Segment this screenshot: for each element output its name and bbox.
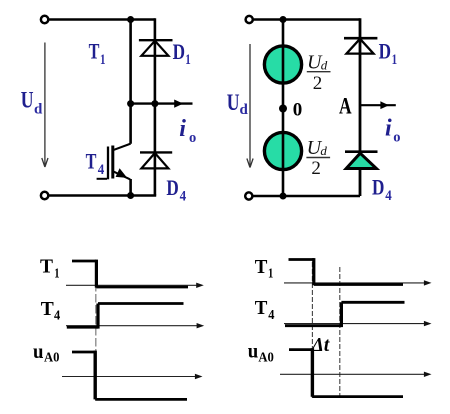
Ud arrowhead (left circuit) (42, 158, 48, 167)
svg-text:o: o (393, 130, 400, 146)
waveform uA0 high (right) (289, 348, 312, 351)
axis uA0 (left diagram) (62, 376, 199, 378)
diode D4 (left) triangle (141, 153, 168, 168)
svg-text:u: u (248, 339, 259, 363)
svg-text:4: 4 (54, 308, 60, 323)
svg-text:1: 1 (268, 267, 273, 282)
IGBT T4 gate bar (107, 147, 109, 180)
terminal upper-left (41, 16, 48, 23)
wire diode branch vertical (right circuit) (359, 18, 362, 196)
svg-text:1: 1 (54, 267, 59, 282)
waveform uA0 low (right) (312, 395, 403, 398)
svg-text:2: 2 (311, 158, 321, 179)
diode D4 (right) cathode bar (345, 150, 378, 153)
node junction bottom (right circuit) (280, 193, 287, 200)
svg-text:T: T (89, 39, 100, 64)
axis T1 arrowhead (196, 283, 204, 288)
terminal lower (right circuit) (245, 192, 252, 199)
waveform T4 low (right) (285, 324, 341, 327)
diode D1 (left) triangle (141, 41, 168, 56)
wire bottom rail (right circuit) (252, 195, 360, 198)
svg-text:2: 2 (313, 73, 323, 94)
svg-text:4: 4 (385, 188, 392, 204)
svg-text:D: D (372, 175, 384, 200)
axis T1 arrowhead (right) (424, 280, 432, 285)
svg-text:i: i (385, 116, 392, 142)
axis T4 arrowhead (197, 323, 205, 328)
svg-text:o: o (189, 130, 196, 146)
axis uA0 arrowhead (195, 374, 203, 379)
svg-text:d: d (321, 58, 328, 73)
diode D4 (right) triangle filled green (346, 153, 376, 168)
svg-text:T: T (255, 256, 268, 278)
svg-text:4: 4 (98, 162, 105, 178)
svg-text:1: 1 (392, 52, 398, 68)
terminal upper (right circuit) (246, 16, 253, 23)
dashed timeline (left diagram) (95, 261, 97, 400)
IGBT T4 collector lead (113, 144, 131, 151)
svg-text:4: 4 (268, 308, 274, 323)
node 0 dot (279, 105, 287, 113)
Ud arrow line (left circuit) (44, 43, 46, 166)
svg-text:D: D (166, 175, 178, 200)
waveform uA0 high (left) (72, 351, 95, 354)
svg-text:u: u (33, 339, 44, 363)
svg-text:D: D (173, 39, 185, 64)
node junction mid-right (151, 100, 158, 107)
axis T4 (right diagram) (284, 323, 428, 325)
waveform T1 fall edge (left) (95, 260, 98, 288)
svg-text:0: 0 (293, 100, 303, 121)
axis T4 (left diagram) (66, 325, 201, 327)
wire top rail (left circuit) (48, 18, 154, 21)
waveform T1 high (right) (289, 258, 315, 261)
svg-text:T: T (41, 298, 55, 320)
dashed timeline t1 (right diagram) (311, 262, 313, 398)
waveform T4 rise edge (right) (340, 302, 343, 327)
svg-text:T: T (255, 297, 268, 319)
svg-text:d: d (320, 143, 327, 158)
diode D1 (right) cathode bar (344, 37, 377, 40)
waveform T1 low (right) (314, 283, 403, 286)
wire bottom rail (left circuit) (48, 194, 156, 197)
node junction bottom (left circuit) (127, 192, 134, 199)
svg-text:d: d (34, 102, 43, 118)
waveform uA0 low (left) (95, 398, 187, 401)
svg-text:T: T (40, 256, 54, 278)
wire emitter to bottom rail (129, 179, 132, 196)
wire diode branch vertical (154, 18, 157, 195)
arrow io (left circuit) (174, 100, 183, 108)
wire output at node A (360, 104, 396, 106)
Ud arrow line (right circuit) (249, 44, 251, 166)
svg-text:A: A (339, 94, 352, 119)
diode D4 (left) cathode bar (140, 151, 172, 153)
terminal lower-left (41, 192, 48, 199)
waveform T1 fall edge (right) (312, 258, 315, 285)
svg-text:A0: A0 (44, 351, 60, 366)
svg-text:A0: A0 (258, 350, 274, 365)
waveform T4 high (left) (98, 302, 184, 305)
arrow io (right circuit) (380, 101, 389, 109)
waveform T1 high (left) (72, 260, 96, 263)
svg-text:1: 1 (100, 52, 106, 68)
Ud arrowhead (right circuit) (247, 159, 253, 168)
svg-text:U: U (227, 90, 240, 115)
svg-text:d: d (240, 102, 249, 118)
IGBT T4 gate lead (97, 178, 107, 180)
svg-text:Δt: Δt (311, 334, 331, 356)
wire output (left circuit) (131, 102, 193, 104)
source V1 upper (green circle) (264, 46, 301, 83)
wire T1 branch vertical (129, 20, 132, 144)
axis T1 (right diagram) (284, 282, 428, 284)
node junction top (left circuit) (127, 16, 134, 23)
waveform T4 low (left) (67, 326, 98, 329)
axis uA0 (right diagram) (280, 373, 428, 375)
waveform uA0 fall edge (left) (93, 351, 96, 400)
svg-text:D: D (379, 39, 391, 64)
svg-text:U: U (21, 88, 34, 113)
wire top rail (right circuit) (253, 18, 360, 21)
wire source branch vertical (282, 20, 285, 197)
svg-text:i: i (179, 116, 186, 142)
axis T1 (left diagram) (66, 284, 201, 286)
waveform uA0 fall edge (right) (311, 348, 314, 397)
diode D1 (right) triangle (347, 39, 374, 54)
axis uA0 arrowhead (right) (424, 372, 432, 377)
dashed timeline t2 (right diagram) (339, 267, 341, 398)
svg-text:T: T (86, 149, 97, 174)
diode D1 (left) cathode bar (139, 39, 173, 41)
svg-text:1: 1 (185, 52, 191, 68)
node junction mid-left (127, 100, 134, 107)
IGBT T4 emitter lead (114, 172, 130, 180)
IGBT T4 emitter arrow (116, 168, 128, 178)
waveform T4 rise edge (left) (96, 304, 99, 329)
waveform T4 high (right) (341, 301, 404, 304)
source V2 lower (green circle) (264, 132, 301, 169)
IGBT T4 body bar (111, 146, 114, 179)
node junction top (right circuit) (280, 16, 287, 23)
axis T4 arrowhead (right) (424, 321, 432, 326)
waveform T1 low (left) (96, 286, 188, 289)
svg-text:4: 4 (180, 188, 187, 204)
